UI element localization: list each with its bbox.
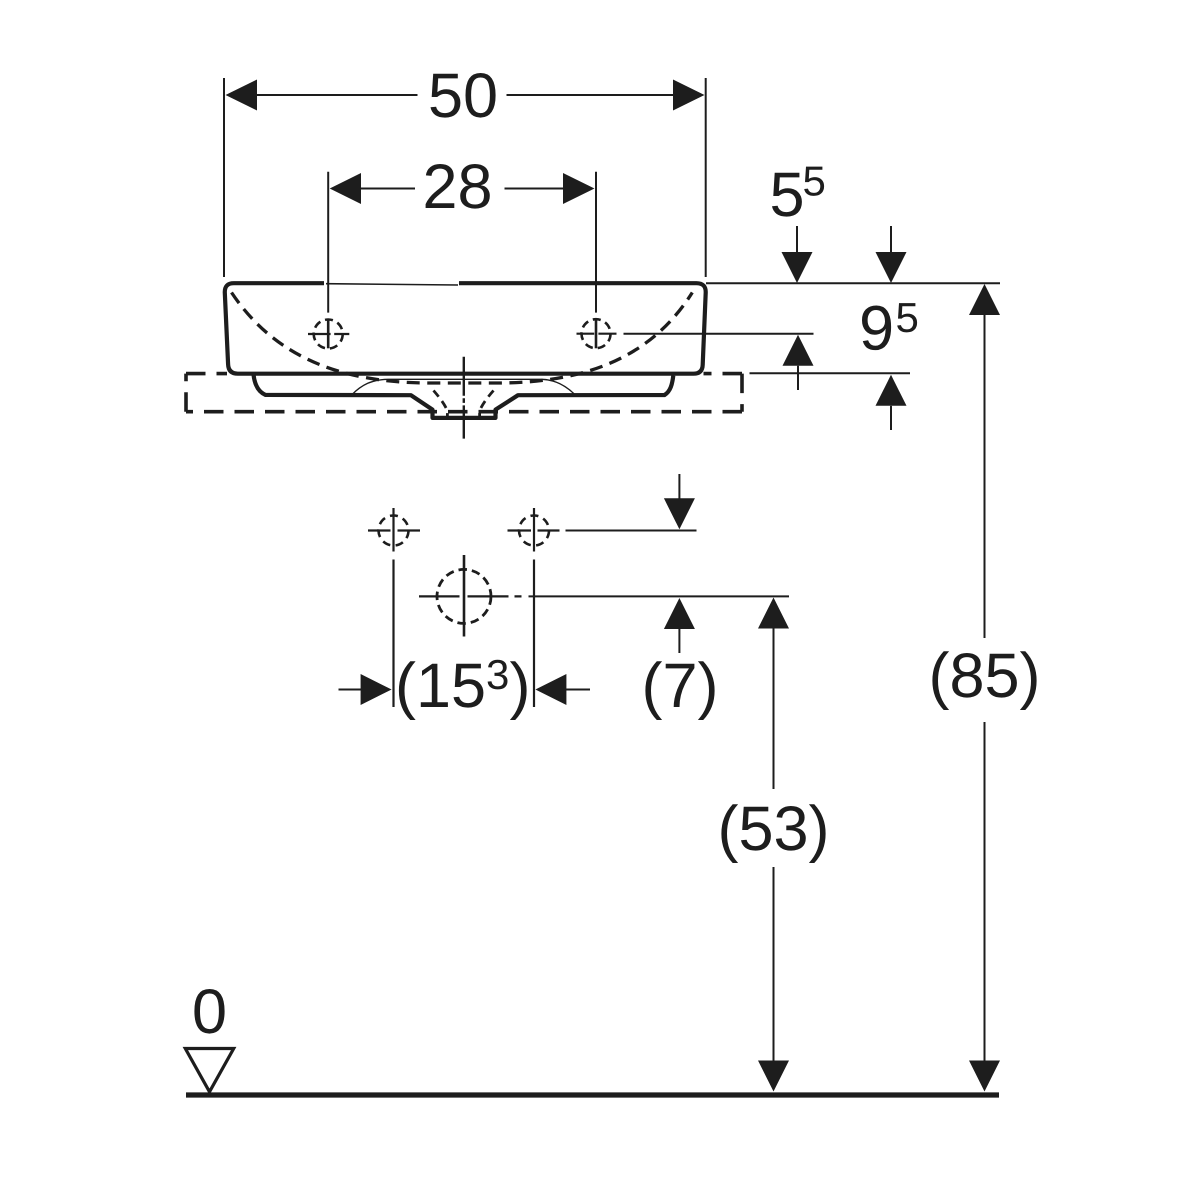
tap hole right crosshair horizontal: [577, 333, 617, 335]
hidden drain funnel right (dashed): [480, 391, 494, 417]
wall fixation hole right dashed circle: [519, 516, 549, 546]
dimension 5.5 lower arrow (up): [783, 335, 814, 366]
wall fixation hole right crosshair horizontal: [508, 529, 560, 531]
tap hole left crosshair vertical: [327, 319, 330, 349]
tap hole right crosshair vertical: [595, 319, 598, 349]
dimension 5.5 label: [772, 173, 802, 217]
dimension 53 line upper segment: [773, 629, 775, 790]
dimension 50 line right segment: [507, 94, 674, 96]
dimension 15.3 left arrow (pointing right): [339, 689, 363, 691]
dimension 53 top arrow (up): [758, 598, 789, 629]
dimension 28 label: [426, 164, 490, 209]
dimension 28 extension line left: [327, 172, 329, 313]
dimension 9.5 lower arrow (up): [876, 375, 907, 406]
dimension 28 line left segment: [361, 188, 415, 190]
reference line top edge extension (y=283): [706, 282, 1000, 284]
dimension 28 arrow right: [563, 173, 595, 204]
dimension 50 label: [431, 73, 496, 118]
dimension 50 extension line right: [705, 78, 707, 277]
dimension 85 bottom arrow (down): [969, 1061, 1000, 1092]
dimension 15.3 right arrow (pointing left): [535, 674, 566, 705]
tray inner thin edge: [352, 379, 575, 394]
wall fixation hole left crosshair vertical: [392, 508, 394, 552]
dimension 28 extension line right: [595, 172, 597, 313]
wall fixation hole left extension line down: [392, 560, 394, 708]
reference line drain level (y=596.4): [529, 595, 790, 597]
floor line: [186, 1092, 999, 1097]
drain hole dashed circle: [437, 569, 491, 623]
dimension 85 line lower segment: [984, 722, 986, 1061]
dimension 85 label: [932, 651, 1036, 710]
dimension 53 line lower segment: [773, 867, 775, 1061]
wall fixation hole left crosshair horizontal: [368, 529, 420, 531]
hidden drain funnel left (dashed): [434, 391, 448, 417]
dimension 15.3 label: [399, 661, 484, 720]
washbasin rim thin middle edge: [326, 284, 458, 285]
reference line bottom edge extension (y=373.3): [750, 372, 911, 374]
tap hole left dashed circle: [314, 320, 343, 349]
dimension 85 top arrow (up): [969, 284, 1000, 315]
dimension 9.5 upper arrow (down): [890, 226, 892, 254]
wall fixation hole left dashed circle: [379, 516, 409, 546]
datum zero label: [194, 989, 224, 1034]
dimension 28 arrow left: [330, 173, 361, 204]
dimension 50 extension line left: [223, 78, 225, 277]
dimension 85 line upper segment: [984, 315, 986, 638]
dimension 28 line right segment: [505, 188, 564, 190]
dimension 7 label: [645, 661, 714, 720]
dimension 9.5 label: [862, 306, 891, 351]
dimension 53 label: [721, 804, 825, 863]
dimension 5.5 upper arrow (down): [796, 226, 798, 254]
tap hole left crosshair horizontal: [308, 333, 349, 335]
dimension 50 line left segment: [257, 94, 418, 96]
dimension 7 upper arrow (down): [678, 474, 680, 500]
wall fixation hole right crosshair vertical: [533, 508, 535, 552]
dimension 7 lower arrow (up): [664, 598, 695, 629]
basin bowl hidden contour (dashed): [232, 293, 693, 384]
tap hole reference line to 5.5 dimension: [624, 333, 814, 335]
drain centerline: [463, 357, 465, 439]
trap boss outline (lower tray): [254, 375, 674, 418]
drain hole crosshair horizontal: [419, 595, 522, 597]
dashed installation zone rectangle: [186, 372, 227, 376]
tap hole right dashed circle: [582, 319, 611, 348]
dimension 50 arrow right: [673, 80, 705, 111]
dimension 53 bottom arrow (down): [758, 1061, 789, 1092]
washbasin body outline: [225, 283, 706, 374]
wall fixation hole right extension line down: [533, 560, 535, 708]
datum triangle: [185, 1049, 233, 1092]
reference line fixation holes (y=530.5): [566, 530, 697, 532]
dimension 50 arrow left: [226, 80, 258, 111]
drain hole crosshair vertical: [463, 555, 466, 637]
